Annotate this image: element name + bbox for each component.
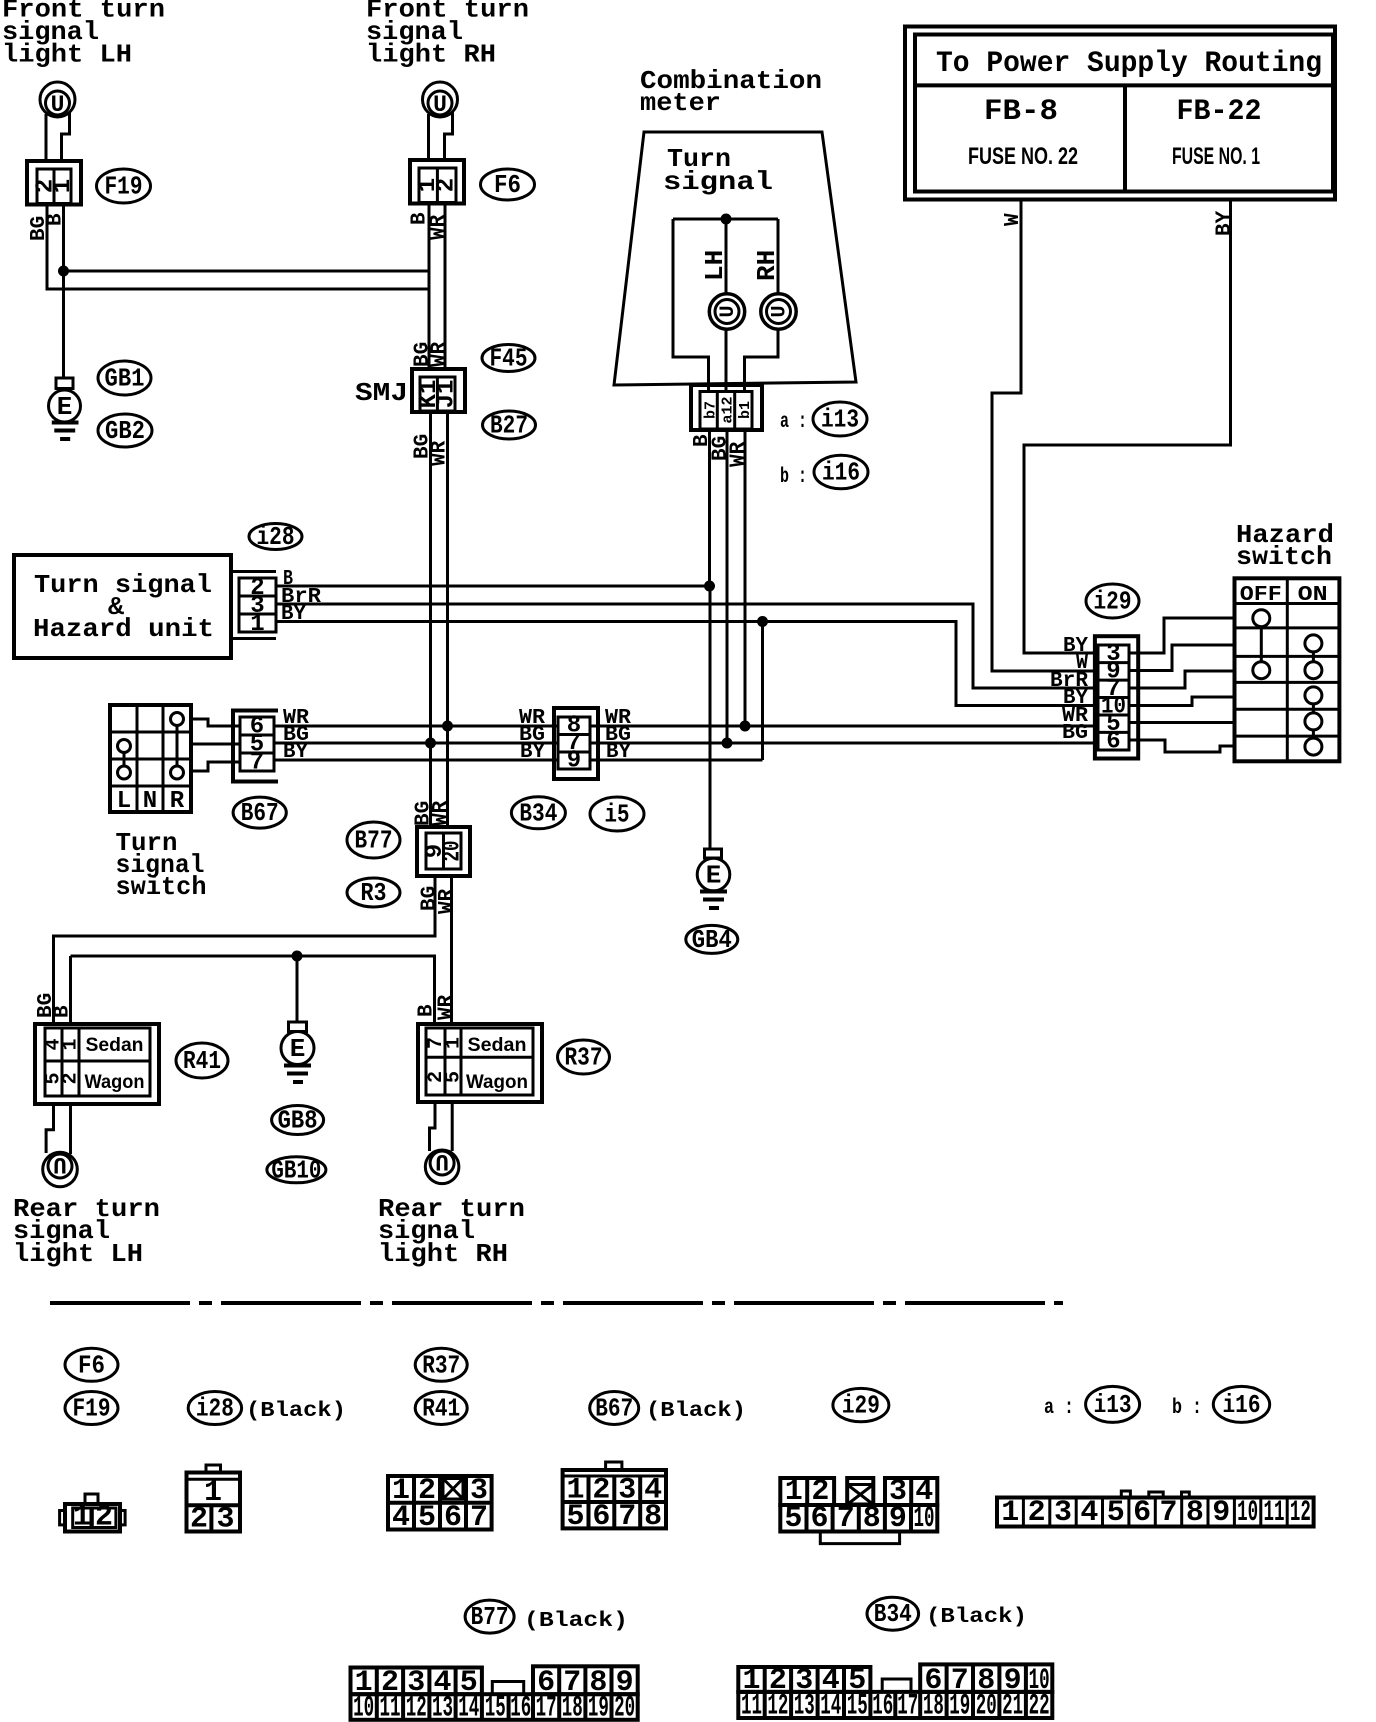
combination meter body: [614, 132, 856, 385]
wire BY net row right: [590, 759, 763, 762]
lamp front turn signal RH: [423, 82, 458, 118]
oval B34: [511, 797, 565, 829]
svg-text:GB8: GB8: [278, 1106, 318, 1136]
pinout F6 F19 connector: [60, 1494, 126, 1535]
svg-text:Sedan: Sedan: [468, 1035, 527, 1056]
svg-text:1: 1: [50, 179, 77, 193]
lamp rear turn signal RH: [425, 1148, 459, 1184]
svg-text:F6: F6: [78, 1350, 105, 1380]
svg-text:12: 12: [1290, 1496, 1311, 1530]
svg-text:(Black): (Black): [926, 1606, 1027, 1629]
svg-text:F19: F19: [105, 172, 143, 202]
svg-text:RH: RH: [752, 250, 782, 281]
wire rear RH lamp leg 2: [451, 1102, 454, 1151]
svg-text:BY: BY: [283, 741, 308, 764]
connector R41: [35, 1024, 159, 1104]
svg-text:2: 2: [95, 1501, 113, 1535]
oval B27: [483, 411, 536, 441]
svg-text:i13: i13: [821, 405, 859, 435]
oval GB2: [98, 414, 152, 447]
pinout B34 connector: [738, 1664, 1052, 1722]
svg-text:14: 14: [458, 1692, 479, 1722]
svg-text:12: 12: [406, 1692, 427, 1722]
svg-text:Wagon: Wagon: [466, 1072, 528, 1093]
svg-text:11: 11: [380, 1692, 401, 1722]
svg-text:a :: a :: [1044, 1397, 1074, 1420]
wire WR vertical SMJ to B77: [446, 412, 449, 827]
svg-text:i28: i28: [257, 522, 295, 552]
wire meter center branch through LH lamp to a12: [725, 219, 728, 391]
connector R37: [418, 1024, 542, 1102]
svg-text:7: 7: [470, 1501, 488, 1535]
svg-text:meter: meter: [640, 88, 721, 118]
ground E rear GB8: [281, 1022, 314, 1082]
svg-text:F45: F45: [490, 344, 528, 374]
oval F19 bottom: [65, 1392, 118, 1425]
oval GB4: [686, 925, 738, 955]
oval R37: [558, 1040, 610, 1074]
svg-text:light LH: light LH: [2, 40, 132, 70]
svg-text:F6: F6: [494, 170, 521, 200]
label Front turn signal light RH: [366, 0, 529, 70]
svg-text:B67: B67: [595, 1394, 633, 1424]
wire drop to GB8: [296, 956, 299, 1022]
wire WR F6 pin2 to SMJ: [444, 204, 447, 370]
svg-text:7: 7: [250, 750, 264, 777]
svg-text:1: 1: [443, 1037, 466, 1049]
svg-text:light RH: light RH: [378, 1239, 508, 1269]
svg-text:R37: R37: [422, 1350, 460, 1380]
svg-text:R41: R41: [183, 1046, 221, 1076]
svg-text:9: 9: [567, 748, 581, 775]
svg-text:b :: b :: [780, 466, 807, 489]
svg-text:20: 20: [614, 1692, 635, 1722]
wire BrR net i28 pin3: [276, 604, 1098, 688]
wire lamp LH leg 1: [45, 114, 48, 161]
node meter common junction: [721, 214, 732, 225]
svg-text:2: 2: [60, 1072, 83, 1084]
svg-text:1: 1: [1001, 1496, 1019, 1530]
svg-text:18: 18: [562, 1692, 583, 1722]
label Turn signal switch: [116, 828, 207, 902]
svg-text:18: 18: [923, 1690, 944, 1722]
svg-text:U: U: [51, 92, 65, 118]
svg-text:3: 3: [216, 1503, 234, 1537]
pinout B67 connector: [563, 1462, 666, 1534]
svg-text:i13: i13: [1094, 1390, 1132, 1420]
svg-text:1: 1: [73, 1501, 91, 1535]
svg-text:GB2: GB2: [105, 416, 145, 446]
svg-text:7: 7: [1159, 1496, 1177, 1530]
node junction BY branch: [757, 616, 768, 627]
svg-text:B77: B77: [471, 1602, 509, 1632]
svg-text:signal: signal: [663, 167, 773, 197]
lamp rear turn signal LH: [43, 1151, 78, 1187]
svg-text:10: 10: [914, 1502, 935, 1536]
connector meter b7 a12 b1: [691, 385, 762, 430]
svg-text:switch: switch: [1236, 542, 1332, 572]
svg-text:B34: B34: [874, 1599, 912, 1629]
wire BG B77 to rear LH: [54, 876, 436, 1026]
svg-text:10: 10: [353, 1692, 374, 1722]
svg-text:OFF: OFF: [1240, 584, 1282, 607]
svg-text:E: E: [290, 1034, 306, 1064]
svg-text:11: 11: [1264, 1496, 1285, 1530]
label Rear turn signal light LH: [13, 1194, 160, 1269]
svg-text:13: 13: [432, 1692, 453, 1722]
oval i16: [814, 455, 868, 489]
wire i29 pin10 to hazard row4: [1129, 697, 1235, 706]
svg-text:17: 17: [897, 1690, 918, 1722]
svg-text:4: 4: [1080, 1496, 1098, 1530]
svg-text:9: 9: [889, 1502, 907, 1536]
svg-text:WR: WR: [430, 800, 453, 826]
svg-text:22: 22: [1029, 1690, 1050, 1722]
svg-text:E: E: [57, 392, 73, 422]
svg-text:14: 14: [820, 1690, 841, 1722]
svg-text:switch: switch: [116, 872, 207, 902]
svg-text:20: 20: [976, 1690, 997, 1722]
oval B77 bottom: [465, 1600, 514, 1633]
svg-text:GB1: GB1: [105, 364, 145, 394]
oval i28: [249, 522, 302, 552]
oval R41: [176, 1043, 228, 1078]
svg-text:SMJ: SMJ: [355, 378, 408, 408]
svg-text:15: 15: [847, 1690, 868, 1722]
switch hazard switch table: [1235, 578, 1340, 761]
svg-text:E: E: [706, 861, 722, 891]
oval B77: [347, 822, 400, 858]
pinout B77 connector: [351, 1666, 638, 1722]
box Turn signal and Hazard unit: [14, 555, 231, 658]
svg-text:6: 6: [1133, 1496, 1151, 1530]
connector SMJ K1 J1: [412, 369, 465, 412]
svg-text:BY: BY: [606, 741, 631, 764]
svg-text:i28: i28: [196, 1394, 234, 1424]
svg-text:21: 21: [1002, 1690, 1023, 1722]
svg-text:BY: BY: [281, 603, 306, 626]
label Turn signal in meter: [663, 144, 773, 197]
connector B67 pins 6 5 7: [233, 711, 278, 782]
wire B ground drop to GB4: [709, 591, 712, 849]
oval F6: [481, 169, 535, 200]
wire B to ground GB1: [62, 276, 65, 378]
svg-text:B: B: [52, 1005, 75, 1018]
svg-text:19: 19: [588, 1692, 609, 1722]
svg-text:WR: WR: [436, 888, 459, 914]
wire i29 pin6 to hazard row6: [1129, 740, 1235, 752]
svg-text:N: N: [143, 788, 157, 815]
svg-text:FB-22: FB-22: [1177, 95, 1262, 129]
svg-text:11: 11: [741, 1690, 762, 1722]
pinout i13 i16 connector: [997, 1491, 1314, 1530]
svg-text:10: 10: [1237, 1496, 1258, 1530]
wire BG from meter a12: [726, 430, 729, 743]
svg-text:W: W: [1002, 213, 1025, 226]
svg-text:1: 1: [60, 1038, 83, 1050]
wire meter right branch through RH lamp to b1: [745, 219, 779, 391]
svg-text:i29: i29: [1094, 587, 1132, 617]
svg-text:R41: R41: [422, 1394, 460, 1424]
svg-text:WR: WR: [429, 341, 452, 367]
oval B67: [233, 797, 286, 828]
svg-text:20: 20: [440, 841, 467, 862]
svg-text:i16: i16: [822, 458, 860, 488]
label Combination meter: [640, 66, 822, 118]
wire BY net row: [274, 759, 558, 762]
wire rear LH lamp leg 1: [46, 1104, 53, 1153]
connector i29 pins 3 9 7 10 5 6: [1095, 636, 1138, 758]
pinout i29 connector: [780, 1475, 937, 1544]
svg-text:(Black): (Black): [524, 1610, 628, 1633]
svg-text:FUSE NO. 1: FUSE NO. 1: [1172, 143, 1260, 170]
svg-text:B: B: [45, 213, 68, 226]
wire lamp RH leg 1: [427, 114, 430, 160]
label Rear turn signal light RH: [378, 1194, 525, 1269]
svg-text:i16: i16: [1223, 1390, 1261, 1420]
lamp meter turn indicator LH: [709, 294, 744, 329]
svg-text:19: 19: [949, 1690, 970, 1722]
oval B67 bottom: [590, 1392, 639, 1425]
svg-text:R: R: [170, 788, 185, 815]
wire BG net row: [274, 742, 558, 745]
svg-text:Sedan: Sedan: [86, 1035, 144, 1056]
switch turn signal switch grid: [110, 705, 191, 815]
node junction BG at meter wire: [722, 738, 733, 749]
wire meter left branch to b7: [673, 219, 709, 391]
oval GB1: [98, 361, 151, 395]
svg-text:B67: B67: [241, 798, 279, 828]
wire BG from F19 pin2: [47, 205, 429, 290]
wire rear LH lamp leg 2: [69, 1104, 72, 1154]
svg-text:Hazard unit: Hazard unit: [33, 614, 214, 644]
separator dashed line: [50, 1301, 1063, 1305]
svg-text:WR: WR: [728, 441, 751, 467]
wire B from meter b7: [708, 430, 711, 586]
wire B rear LH drop: [69, 956, 72, 1026]
svg-text:U: U: [433, 92, 447, 118]
connector B34 pins 8 7 9: [554, 708, 598, 779]
svg-text:2: 2: [1028, 1496, 1046, 1530]
wire i29 pin3 to hazard row1: [1129, 618, 1235, 653]
svg-text:6: 6: [592, 1500, 610, 1534]
svg-text:B27: B27: [490, 411, 528, 441]
svg-text:8: 8: [863, 1502, 881, 1536]
svg-text:5: 5: [566, 1500, 584, 1534]
oval i29: [1086, 584, 1139, 618]
svg-text:R37: R37: [565, 1043, 603, 1073]
connector F19: [27, 161, 81, 205]
svg-text:FUSE NO. 22: FUSE NO. 22: [968, 143, 1078, 170]
svg-text:BY: BY: [520, 741, 545, 764]
wire BY from FB-22: [1024, 200, 1231, 654]
svg-text:6: 6: [810, 1502, 828, 1536]
wire rear RH lamp leg 1: [430, 1102, 436, 1151]
svg-text:ON: ON: [1298, 584, 1328, 607]
svg-text:b1: b1: [737, 401, 754, 419]
svg-text:13: 13: [794, 1690, 815, 1722]
wire B rear bus: [71, 956, 435, 1026]
oval GB8: [272, 1106, 324, 1136]
oval R41 bottom: [415, 1392, 467, 1425]
svg-text:12: 12: [767, 1690, 788, 1722]
svg-text:b7: b7: [703, 401, 720, 419]
wire lamp LH leg 2: [62, 112, 70, 161]
node junction WR at SMJ wire: [442, 721, 453, 732]
svg-text:8: 8: [1186, 1496, 1204, 1530]
wire BG net row right: [590, 742, 1098, 745]
svg-text:BG: BG: [1062, 722, 1088, 745]
node junction B at meter: [704, 581, 715, 592]
oval F19: [97, 169, 151, 203]
oval F6 bottom: [65, 1348, 118, 1381]
lamp front turn signal LH: [40, 82, 75, 118]
ground E front LH: [49, 378, 81, 439]
wire switch to B67 pin7: [191, 762, 240, 771]
oval F45: [482, 344, 535, 374]
wire i29 pin9 to hazard row2: [1129, 645, 1235, 671]
svg-text:2: 2: [434, 178, 461, 192]
svg-text:Wagon: Wagon: [85, 1072, 145, 1093]
svg-text:5: 5: [784, 1502, 802, 1536]
lamp meter turn indicator RH: [761, 294, 796, 329]
wire switch L to B67 pin5: [191, 743, 240, 746]
ground E GB4: [697, 849, 730, 908]
svg-text:4: 4: [392, 1501, 410, 1535]
oval i28 bottom: [188, 1392, 241, 1425]
oval R37 bottom: [415, 1348, 467, 1381]
wire BG vertical SMJ to B77: [429, 412, 432, 827]
svg-text:GB10: GB10: [271, 1155, 321, 1185]
svg-text:WR: WR: [436, 994, 459, 1020]
wire i29 pin7 to hazard row3: [1129, 671, 1235, 688]
wire B LH to RH: [64, 270, 430, 273]
svg-text:(Black): (Black): [246, 1400, 346, 1423]
svg-text:light RH: light RH: [366, 40, 496, 70]
svg-text:U: U: [53, 1151, 67, 1177]
svg-text:light LH: light LH: [13, 1239, 143, 1269]
wire BY net i28 pin1: [276, 622, 1098, 706]
svg-text:U: U: [717, 305, 740, 317]
svg-text:LH: LH: [700, 250, 730, 281]
oval GB10: [267, 1155, 326, 1185]
svg-text:U: U: [435, 1148, 449, 1174]
svg-text:5: 5: [443, 1071, 466, 1083]
svg-text:B77: B77: [355, 826, 393, 856]
node junction B rear ground: [292, 951, 303, 962]
wire WR B77 to R37: [450, 876, 453, 1026]
svg-text:(Black): (Black): [646, 1400, 746, 1423]
svg-text:To Power Supply Routing: To Power Supply Routing: [936, 47, 1322, 81]
oval i13 bottom: [1086, 1386, 1140, 1422]
wire B net i28 pin2: [276, 585, 710, 588]
svg-text:5: 5: [1107, 1496, 1125, 1530]
svg-text:7: 7: [618, 1500, 636, 1534]
svg-text:B34: B34: [519, 798, 557, 828]
svg-text:a :: a :: [780, 411, 807, 434]
pinout i28 connector: [187, 1465, 241, 1537]
oval i13: [813, 402, 867, 436]
connector F6: [410, 160, 464, 204]
svg-text:b :: b :: [1172, 1397, 1202, 1420]
svg-text:F19: F19: [73, 1394, 111, 1424]
oval R3: [347, 878, 400, 908]
svg-text:8: 8: [644, 1500, 662, 1534]
wire lamp RH leg 2: [445, 112, 453, 160]
node junction BG at SMJ wire: [425, 738, 436, 749]
svg-text:GB4: GB4: [692, 925, 732, 955]
svg-text:3: 3: [1054, 1496, 1072, 1530]
oval i16 bottom: [1213, 1386, 1269, 1422]
svg-text:L: L: [117, 788, 131, 815]
wire B from F19 pin1: [62, 205, 65, 272]
wire W from FB-8: [992, 200, 1098, 672]
svg-text:U: U: [769, 305, 792, 317]
svg-text:5: 5: [418, 1501, 436, 1535]
oval i5: [590, 797, 644, 831]
wire WR net row right: [590, 725, 1098, 728]
svg-text:6: 6: [1106, 729, 1120, 756]
svg-text:7: 7: [837, 1502, 855, 1536]
svg-text:a12: a12: [720, 396, 737, 423]
svg-text:16: 16: [872, 1690, 893, 1722]
svg-text:J1: J1: [434, 380, 461, 409]
svg-text:15: 15: [485, 1692, 506, 1722]
wire i29 pin5 to hazard row5: [1129, 721, 1235, 724]
oval B34 bottom: [867, 1597, 919, 1630]
connector B77 pins 9 20: [417, 827, 470, 876]
wire WR from meter b1: [744, 430, 747, 726]
svg-text:9: 9: [1212, 1496, 1230, 1530]
box To Power Supply Routing: [905, 27, 1335, 200]
wire WR net row: [274, 725, 558, 728]
wire B-BG vertical F6 to SMJ: [428, 204, 431, 370]
wire switch R to B67 pin6: [191, 719, 240, 726]
svg-text:i5: i5: [605, 800, 630, 830]
svg-text:1: 1: [250, 611, 264, 638]
svg-text:BY: BY: [1214, 210, 1237, 236]
connector i28 pins 2 3 1: [231, 572, 276, 639]
node junction B LH: [58, 266, 69, 277]
node junction WR at meter wire: [740, 721, 751, 732]
svg-text:17: 17: [536, 1692, 557, 1722]
oval i29 bottom: [833, 1388, 889, 1421]
svg-text:i29: i29: [842, 1391, 880, 1421]
wire BY branch down to BY row: [761, 622, 764, 761]
svg-text:WR: WR: [428, 214, 451, 240]
svg-text:R3: R3: [361, 878, 387, 908]
svg-text:2: 2: [190, 1503, 208, 1537]
label Hazard switch: [1236, 520, 1334, 572]
svg-text:6: 6: [444, 1501, 462, 1535]
wire meter top bus: [673, 218, 778, 221]
pinout R37 R41 connector: [388, 1474, 492, 1535]
label Front turn signal light LH: [2, 0, 165, 70]
svg-text:16: 16: [510, 1692, 531, 1722]
svg-text:FB-8: FB-8: [984, 95, 1058, 129]
